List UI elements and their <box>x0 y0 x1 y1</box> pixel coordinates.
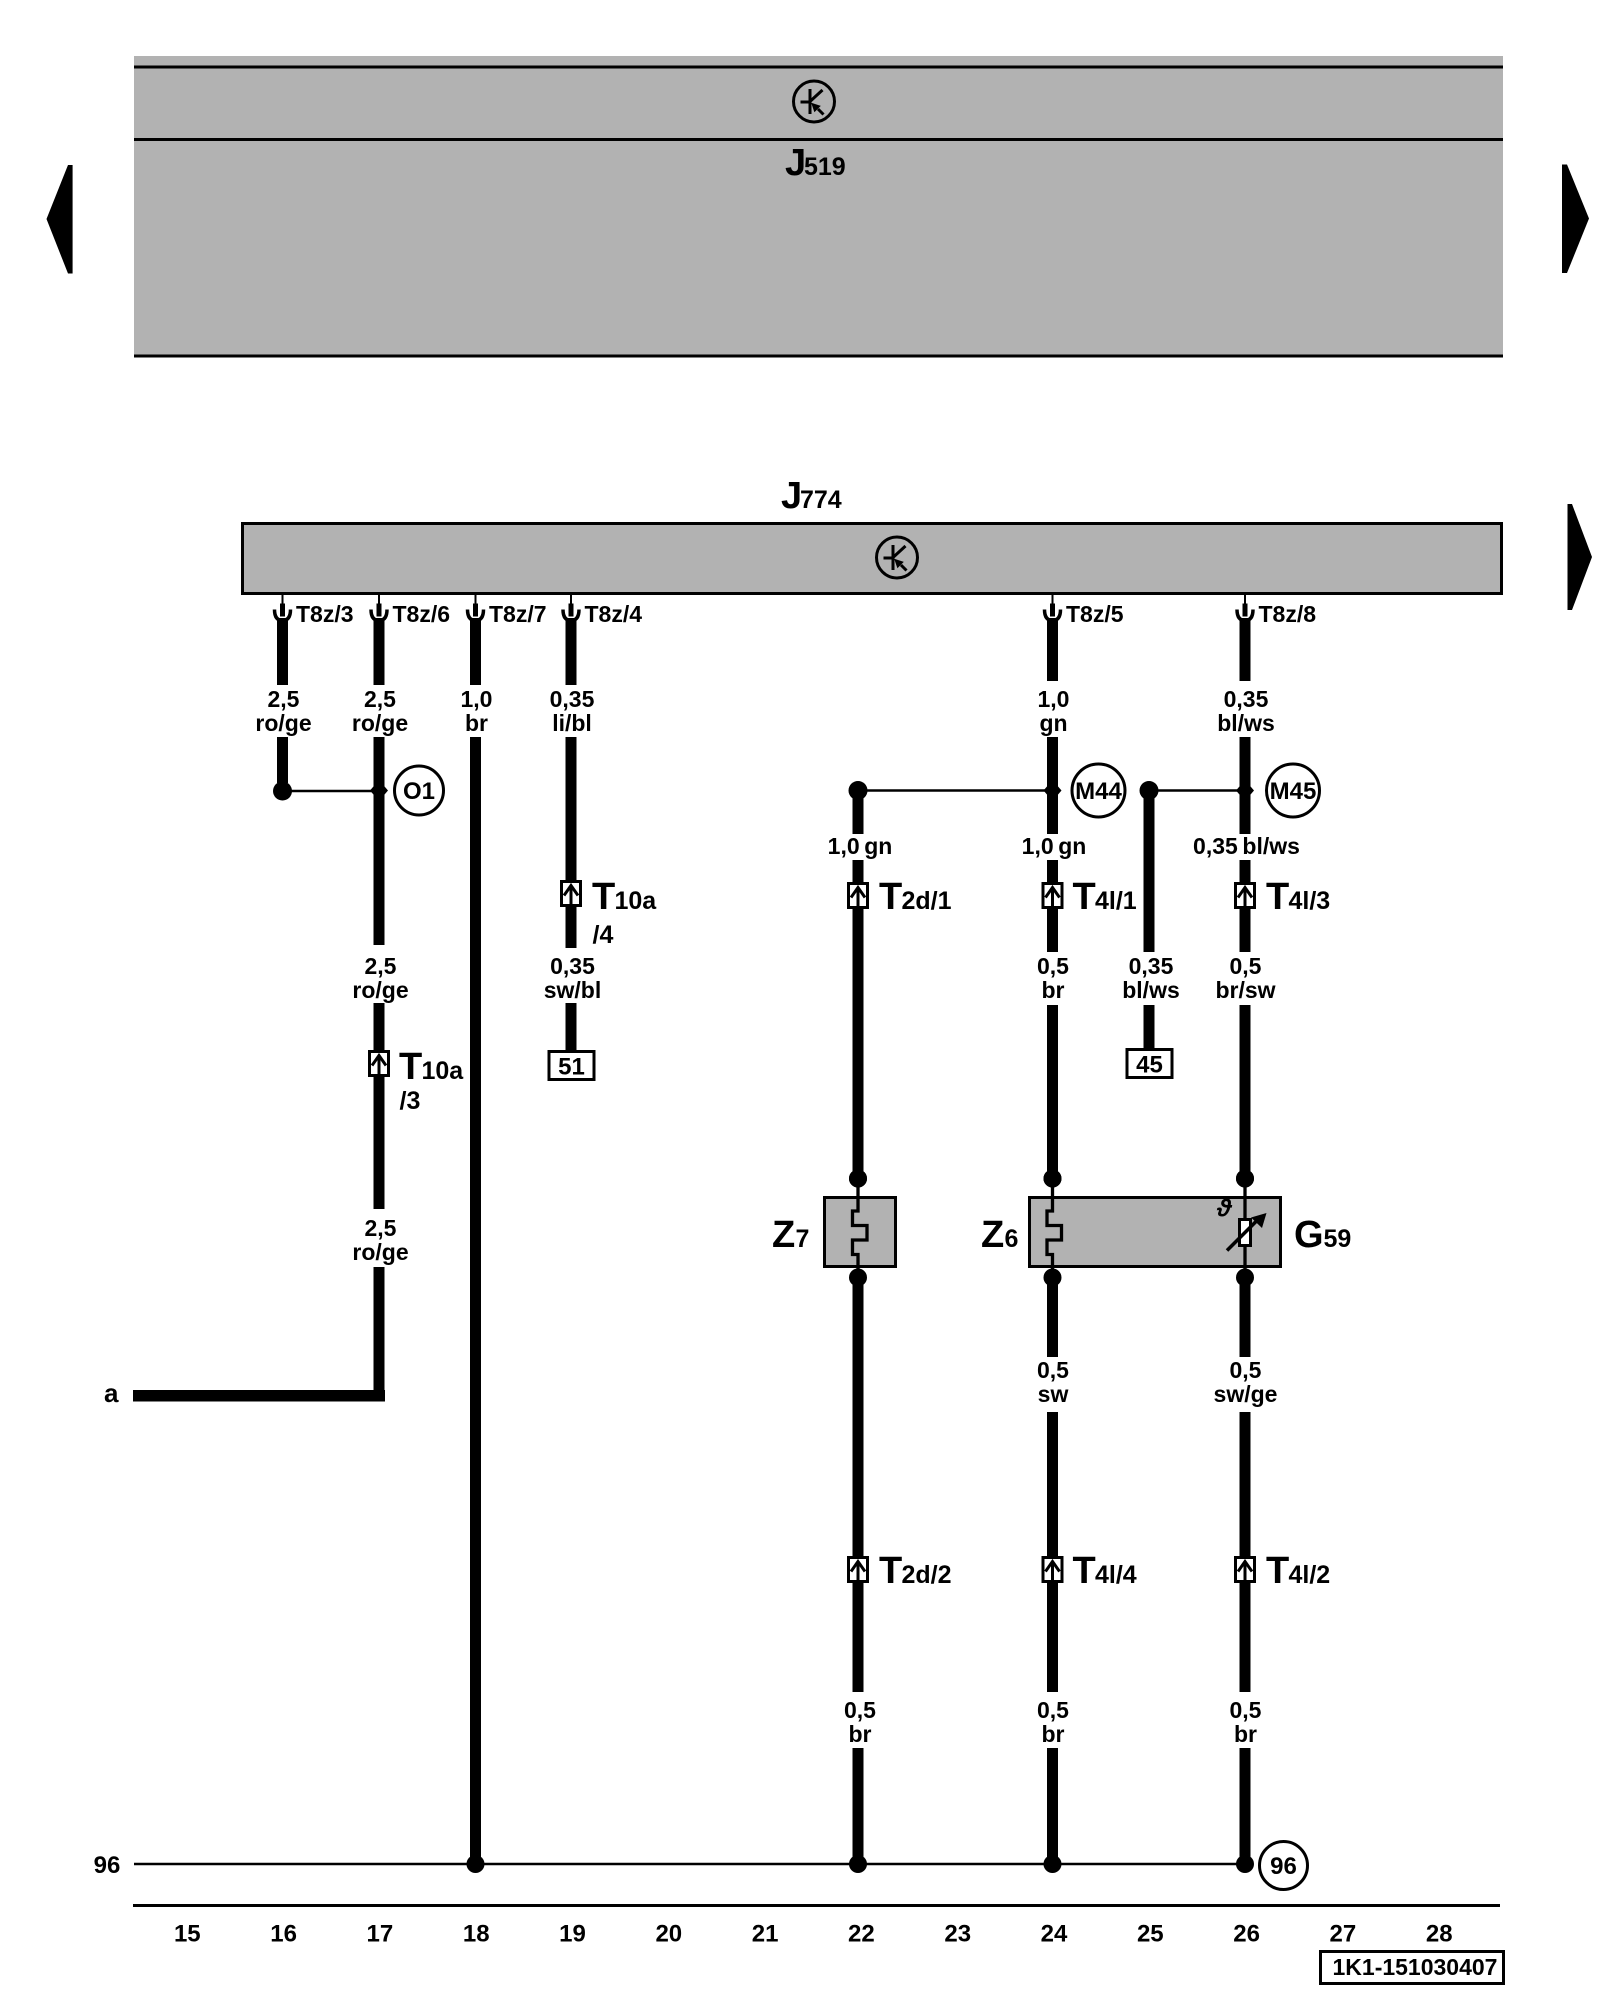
svg-text:4l/1: 4l/1 <box>1095 887 1137 915</box>
svg-text:br/sw: br/sw <box>1215 977 1275 1003</box>
svg-text:0,5: 0,5 <box>844 1697 876 1723</box>
svg-text:sw: sw <box>1038 1381 1069 1407</box>
svg-text:br: br <box>849 1721 872 1747</box>
svg-text:0,5: 0,5 <box>1230 953 1262 979</box>
svg-text:0,5: 0,5 <box>1230 1357 1262 1383</box>
svg-text:T: T <box>1266 1550 1289 1592</box>
svg-text:ro/ge: ro/ge <box>352 710 408 736</box>
svg-text:2d/2: 2d/2 <box>902 1561 952 1589</box>
svg-text:22: 22 <box>848 1921 875 1948</box>
svg-text:27: 27 <box>1330 1921 1357 1948</box>
svg-text:T: T <box>1073 876 1096 918</box>
svg-text:sw/bl: sw/bl <box>544 977 602 1003</box>
svg-text:T: T <box>879 1550 902 1592</box>
svg-text:1K1-151030407: 1K1-151030407 <box>1333 1954 1498 1980</box>
svg-text:10a: 10a <box>422 1057 465 1085</box>
svg-text:28: 28 <box>1426 1921 1453 1948</box>
svg-text:ro/ge: ro/ge <box>352 1239 408 1265</box>
svg-text:br: br <box>465 710 488 736</box>
svg-text:T: T <box>399 1046 422 1088</box>
svg-text:0,35 bl/ws: 0,35 bl/ws <box>1193 833 1300 859</box>
svg-text:519: 519 <box>804 153 846 181</box>
svg-text:J: J <box>781 475 802 517</box>
svg-text:Z: Z <box>772 1214 795 1256</box>
svg-text:ϑ: ϑ <box>1216 1195 1233 1223</box>
svg-text:J: J <box>785 142 806 184</box>
svg-text:0,5: 0,5 <box>1037 1357 1069 1383</box>
svg-text:li/bl: li/bl <box>552 710 592 736</box>
svg-text:2,5: 2,5 <box>365 953 397 979</box>
svg-text:17: 17 <box>367 1921 394 1948</box>
svg-text:ro/ge: ro/ge <box>255 710 311 736</box>
svg-text:br: br <box>1234 1721 1257 1747</box>
svg-text:2,5: 2,5 <box>364 686 396 712</box>
svg-text:0,5: 0,5 <box>1037 1697 1069 1723</box>
svg-text:45: 45 <box>1136 1052 1163 1079</box>
svg-text:ro/ge: ro/ge <box>352 977 408 1003</box>
svg-text:br: br <box>1042 977 1065 1003</box>
svg-text:0,35: 0,35 <box>550 953 595 979</box>
svg-text:0,35: 0,35 <box>1129 953 1174 979</box>
svg-text:T: T <box>879 876 902 918</box>
svg-text:/3: /3 <box>400 1087 421 1115</box>
svg-text:23: 23 <box>944 1921 971 1948</box>
svg-text:25: 25 <box>1137 1921 1164 1948</box>
svg-text:Z: Z <box>981 1214 1004 1256</box>
svg-text:4l/2: 4l/2 <box>1289 1561 1331 1589</box>
svg-text:26: 26 <box>1233 1921 1260 1948</box>
svg-text:M45: M45 <box>1270 778 1317 805</box>
svg-text:1,0 gn: 1,0 gn <box>1022 833 1087 859</box>
svg-text:gn: gn <box>1039 710 1067 736</box>
svg-text:15: 15 <box>174 1921 201 1948</box>
svg-text:59: 59 <box>1324 1225 1352 1253</box>
svg-text:0,35: 0,35 <box>1224 686 1269 712</box>
svg-text:774: 774 <box>800 486 842 514</box>
svg-text:4l/3: 4l/3 <box>1289 887 1331 915</box>
svg-text:T8z/6: T8z/6 <box>393 601 451 627</box>
svg-text:24: 24 <box>1041 1921 1068 1948</box>
svg-text:1,0: 1,0 <box>461 686 493 712</box>
svg-text:O1: O1 <box>403 778 435 805</box>
svg-text:br: br <box>1042 1721 1065 1747</box>
svg-text:2,5: 2,5 <box>268 686 300 712</box>
svg-text:51: 51 <box>558 1054 585 1081</box>
svg-text:6: 6 <box>1005 1225 1019 1253</box>
svg-text:0,35: 0,35 <box>550 686 595 712</box>
svg-text:T8z/4: T8z/4 <box>585 601 643 627</box>
svg-text:T8z/8: T8z/8 <box>1259 601 1317 627</box>
svg-text:10a: 10a <box>615 887 658 915</box>
svg-text:21: 21 <box>752 1921 779 1948</box>
svg-text:96: 96 <box>94 1852 121 1879</box>
svg-text:M44: M44 <box>1075 778 1122 805</box>
svg-text:/4: /4 <box>593 921 614 949</box>
svg-text:2d/1: 2d/1 <box>902 887 952 915</box>
svg-text:bl/ws: bl/ws <box>1217 710 1275 736</box>
svg-text:20: 20 <box>655 1921 682 1948</box>
svg-text:bl/ws: bl/ws <box>1122 977 1180 1003</box>
svg-text:19: 19 <box>559 1921 586 1948</box>
svg-text:1,0 gn: 1,0 gn <box>828 833 893 859</box>
svg-text:T: T <box>1266 876 1289 918</box>
svg-text:a: a <box>104 1378 119 1408</box>
svg-text:T8z/5: T8z/5 <box>1066 601 1124 627</box>
svg-text:18: 18 <box>463 1921 490 1948</box>
svg-text:1,0: 1,0 <box>1038 686 1070 712</box>
svg-text:T8z/7: T8z/7 <box>489 601 547 627</box>
svg-text:0,5: 0,5 <box>1037 953 1069 979</box>
svg-text:sw/ge: sw/ge <box>1214 1381 1278 1407</box>
svg-text:4l/4: 4l/4 <box>1095 1561 1137 1589</box>
svg-text:16: 16 <box>270 1921 297 1948</box>
svg-text:T: T <box>592 876 615 918</box>
svg-text:T8z/3: T8z/3 <box>296 601 354 627</box>
svg-text:2,5: 2,5 <box>365 1215 397 1241</box>
svg-text:7: 7 <box>796 1225 810 1253</box>
svg-text:T: T <box>1073 1550 1096 1592</box>
svg-text:0,5: 0,5 <box>1230 1697 1262 1723</box>
svg-text:96: 96 <box>1270 1853 1297 1880</box>
svg-text:G: G <box>1294 1214 1324 1256</box>
